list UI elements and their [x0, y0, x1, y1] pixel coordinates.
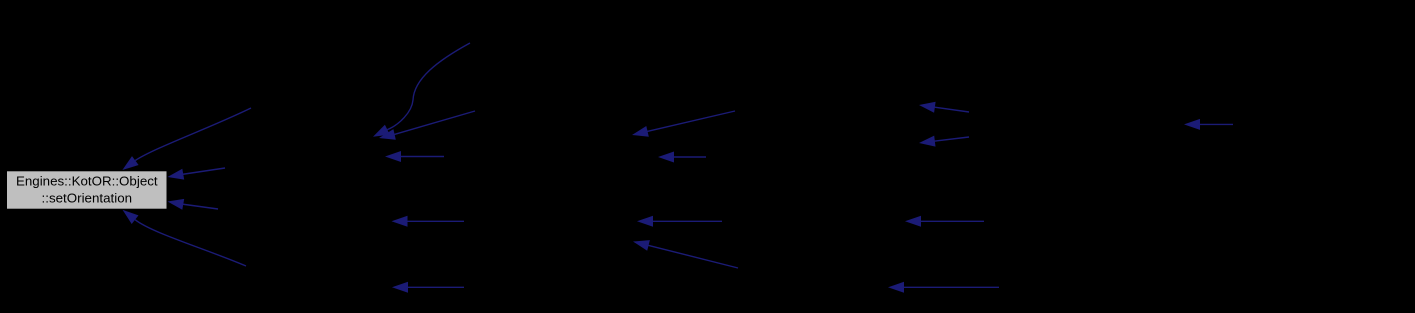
svg-text:::setOrientation: ::setOrientation: [42, 191, 133, 206]
svg-text:Engines::KotOR::Object: Engines::KotOR::Object: [16, 174, 158, 189]
